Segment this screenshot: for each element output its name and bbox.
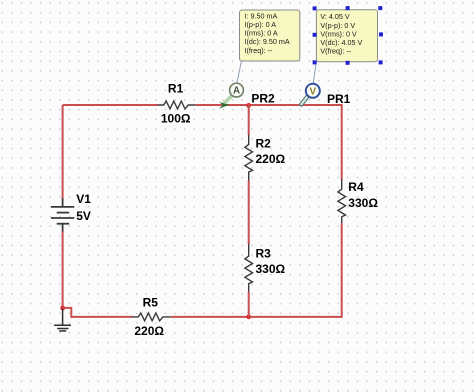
resistor R4 xyxy=(338,179,346,223)
svg-text:V1: V1 xyxy=(76,192,91,206)
resistor R2 xyxy=(245,135,253,181)
svg-text:R3: R3 xyxy=(256,246,272,260)
wire: node under PR2 to top-right corner xyxy=(249,104,342,106)
wire: right branch bottom (R4 to corner) xyxy=(341,223,343,318)
resistor R5 xyxy=(132,313,171,321)
svg-text:PR1: PR1 xyxy=(327,92,351,106)
svg-text:220Ω: 220Ω xyxy=(134,324,164,338)
wire: R5 to bottom middle node xyxy=(171,316,249,318)
current probe PR2 xyxy=(219,83,244,109)
wire: middle branch top (node to R2) xyxy=(248,104,250,135)
svg-text:100Ω: 100Ω xyxy=(161,112,191,126)
junction node at ground xyxy=(60,306,65,311)
wire: left branch V1 top lead xyxy=(62,105,64,200)
svg-text:330Ω: 330Ω xyxy=(348,196,378,210)
svg-text:R4: R4 xyxy=(348,180,364,194)
svg-text:V: V xyxy=(310,86,317,97)
junction node bottom middle xyxy=(246,314,251,319)
svg-text:330Ω: 330Ω xyxy=(256,262,286,276)
resistor R1 xyxy=(158,101,196,109)
voltage source V1 xyxy=(51,199,74,233)
voltage probe PR1 xyxy=(301,84,320,105)
resistor R3 xyxy=(245,244,253,292)
wire: R1 to node under PR2 xyxy=(196,104,249,106)
svg-text:PR2: PR2 xyxy=(251,92,275,106)
probe leader line PR2 to readout box xyxy=(237,61,242,82)
junction node under PR2 xyxy=(246,103,251,108)
svg-text:220Ω: 220Ω xyxy=(256,152,286,166)
svg-text:A: A xyxy=(233,86,240,97)
svg-text:V(freq): --: V(freq): -- xyxy=(320,46,351,55)
wire: bottom node to bottom-right corner xyxy=(249,316,342,318)
ground xyxy=(54,309,71,331)
wire: top segment V1 corner to R1 xyxy=(63,104,158,106)
svg-text:5V: 5V xyxy=(76,209,91,223)
wire: bottom jog from ground node to R5 xyxy=(63,308,133,317)
probe leader line PR1 to readout box xyxy=(313,61,316,84)
svg-text:I(freq): --: I(freq): -- xyxy=(245,46,274,55)
wire: middle branch bottom (R3 to bottom node) xyxy=(248,292,250,317)
selection handles of PR1 readout box xyxy=(313,6,383,65)
wire: left branch V1 bottom to ground node xyxy=(62,232,64,309)
svg-text:R5: R5 xyxy=(143,296,159,310)
measurement box PR2 readout xyxy=(240,10,300,61)
svg-text:R1: R1 xyxy=(168,82,184,96)
measurement box PR1 readout (selected) xyxy=(316,10,377,62)
wire: middle branch between R2 and R3 xyxy=(248,181,250,245)
svg-text:R2: R2 xyxy=(256,136,272,150)
wire: right branch top (corner to R4) xyxy=(341,104,343,180)
